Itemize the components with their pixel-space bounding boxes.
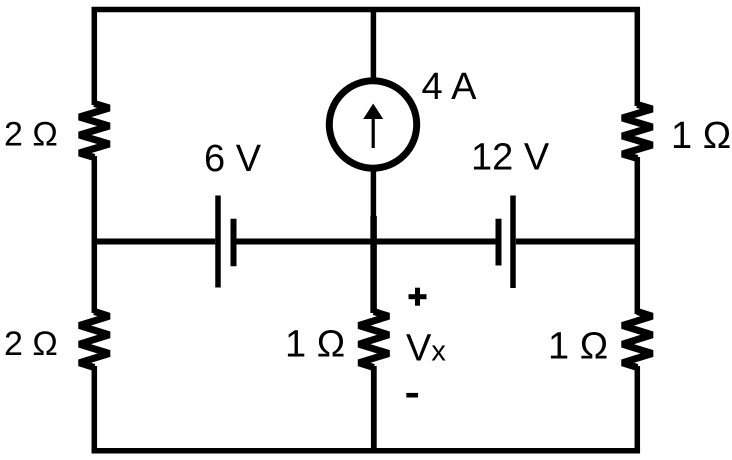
wire right vertical middle segment xyxy=(635,157,641,314)
current source I1 arrow head xyxy=(363,104,383,120)
svg-text:6 V: 6 V xyxy=(204,138,262,180)
current source I1 arrow shaft xyxy=(372,116,375,148)
wire middle vertical below current source xyxy=(371,169,377,219)
svg-text:1 Ω: 1 Ω xyxy=(285,324,345,366)
battery V1 6 V long plate xyxy=(215,196,221,288)
wire middle vertical above current source xyxy=(371,7,377,80)
wire left vertical middle segment xyxy=(92,156,98,313)
wire bottom horizontal xyxy=(92,448,640,454)
svg-text:12 V: 12 V xyxy=(471,137,550,179)
resistor R5 1 ohm middle xyxy=(359,312,389,368)
svg-text:2 Ω: 2 Ω xyxy=(4,325,58,363)
wire left vertical bottom segment xyxy=(92,366,98,453)
label Vx minus polarity mark xyxy=(406,393,418,398)
current source I1 4 A circle xyxy=(329,81,416,168)
svg-text:1 Ω: 1 Ω xyxy=(671,115,731,157)
resistor R3 1 ohm top-right xyxy=(622,105,652,159)
label Vx plus polarity mark xyxy=(409,288,427,306)
resistor R2 2 ohm bottom-left xyxy=(79,312,109,368)
wire middle vertical bottom segment xyxy=(371,366,377,453)
battery V1 6 V short plate xyxy=(231,219,237,266)
wire left vertical top segment xyxy=(92,7,98,105)
svg-text:2 Ω: 2 Ω xyxy=(4,116,58,154)
svg-text:Vx: Vx xyxy=(406,328,446,370)
resistor R4 1 ohm bottom-right xyxy=(622,312,652,368)
wire right vertical top segment xyxy=(635,7,641,106)
svg-text:1 Ω: 1 Ω xyxy=(548,326,608,368)
battery V2 12 V short plate xyxy=(496,219,502,266)
battery V2 12 V long plate xyxy=(510,196,516,289)
wire middle horizontal right segment xyxy=(516,239,640,245)
wire middle vertical junction to resistor xyxy=(370,216,377,313)
wire right vertical bottom segment xyxy=(635,366,641,453)
svg-text:4 A: 4 A xyxy=(422,66,478,108)
wire middle horizontal center segment xyxy=(237,239,496,245)
resistor R1 2 ohm top-left xyxy=(79,104,109,158)
wire middle horizontal left segment xyxy=(92,239,216,245)
wire top horizontal xyxy=(92,7,640,13)
